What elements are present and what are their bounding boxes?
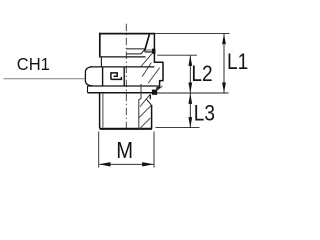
L2 top extension line	[157, 54, 197, 56]
body right profile	[154, 62, 163, 90]
hex facet line right	[123, 67, 125, 86]
washer bottom edge	[88, 92, 158, 94]
seal black	[152, 90, 157, 95]
thread blob	[152, 49, 155, 54]
nut section gray fill	[145, 49, 155, 53]
nut lower bore line	[126, 53, 141, 55]
dimension L2	[188, 55, 212, 93]
svg-text:CH1: CH1	[17, 55, 50, 74]
stud bore line	[139, 84, 141, 129]
shared bottom extension line	[157, 92, 229, 94]
stud left root	[102, 94, 104, 128]
marking glyph on hex face	[111, 73, 122, 80]
stud bottom edge	[100, 128, 152, 130]
hex left bulge	[85, 67, 92, 86]
thread start stub	[149, 94, 151, 99]
nut bottom edge	[99, 56, 145, 58]
nut section quad right	[141, 33, 155, 62]
washer hatch	[157, 86, 162, 90]
dimension M	[99, 138, 154, 167]
dimension L3	[188, 93, 215, 127]
nut bore line	[126, 48, 145, 50]
L1 top extension line	[154, 32, 230, 34]
hex top edge	[90, 66, 155, 68]
collar hatch	[141, 54, 160, 83]
stud left crest	[99, 93, 101, 128]
stud right crest	[151, 105, 153, 129]
svg-text:M: M	[116, 138, 133, 163]
svg-text:L1: L1	[227, 50, 248, 75]
body top edge	[99, 33, 155, 35]
thread runout	[146, 99, 151, 105]
hex facet line left	[102, 67, 104, 86]
M left extension line	[98, 132, 100, 168]
L3 bottom extension line	[156, 127, 200, 129]
neck left edge	[100, 57, 102, 67]
dimension L1	[222, 34, 248, 93]
svg-text:L2: L2	[191, 62, 212, 87]
stud hatch	[139, 95, 151, 129]
washer left edge	[87, 86, 89, 93]
label CH1	[17, 55, 50, 74]
nut left edge	[99, 33, 101, 57]
hex bottom edge	[88, 85, 160, 87]
svg-text:L3: L3	[194, 101, 215, 126]
CH1 leader line	[4, 78, 86, 80]
centerline	[125, 24, 127, 131]
M right extension line	[153, 132, 155, 168]
